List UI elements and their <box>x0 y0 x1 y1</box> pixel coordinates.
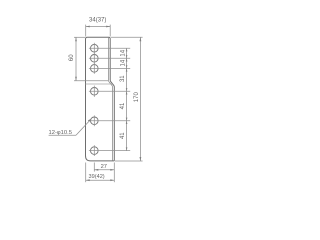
dim 170 arrows <box>140 37 142 161</box>
dim 34(37) arrows <box>86 26 111 28</box>
bend line lower flange <box>108 80 112 160</box>
hole 1 <box>91 44 99 52</box>
svg-text:39(42): 39(42) <box>89 174 105 180</box>
svg-text:41: 41 <box>120 102 126 109</box>
hole 5 <box>91 117 99 125</box>
svg-text:27: 27 <box>101 164 107 170</box>
hole 3 <box>91 65 99 73</box>
svg-text:12-φ10.5: 12-φ10.5 <box>49 130 72 136</box>
svg-text:14: 14 <box>120 59 126 66</box>
dim 27 bottom <box>94 163 114 183</box>
hole 1 centerlines <box>89 43 130 54</box>
svg-text:41: 41 <box>120 132 126 139</box>
plate outline <box>86 37 115 161</box>
hole 4 centerlines <box>89 86 130 97</box>
svg-text:14: 14 <box>120 49 126 56</box>
svg-text:60: 60 <box>69 54 75 61</box>
hole 4 <box>91 88 99 96</box>
hole 2 <box>91 55 99 63</box>
dim 34(37) top <box>86 25 111 37</box>
dim 60 left <box>74 37 108 80</box>
dim 27 arrows <box>94 169 114 171</box>
dim 39(42) bottom <box>86 163 115 183</box>
dim line column right (14,14,31,41,41) <box>126 48 128 150</box>
leader arrowhead <box>88 119 92 122</box>
svg-text:34(37): 34(37) <box>89 18 106 24</box>
svg-text:31: 31 <box>120 75 126 82</box>
dim 60 arrows <box>75 37 77 80</box>
dim column arrows <box>126 48 128 150</box>
dim 39(42) arrows <box>86 179 115 181</box>
leader 12-phi10.5 <box>49 119 92 136</box>
step line across plate <box>86 83 113 85</box>
hole 6 <box>91 147 99 155</box>
hole 3 centerlines <box>89 63 130 74</box>
bend line upper flange <box>107 38 109 81</box>
hole 2 centerlines <box>89 53 130 64</box>
hole 5 centerlines <box>89 115 130 126</box>
dim 170 right <box>111 37 143 161</box>
svg-text:170: 170 <box>134 92 140 103</box>
hole 6 centerlines <box>89 145 130 156</box>
